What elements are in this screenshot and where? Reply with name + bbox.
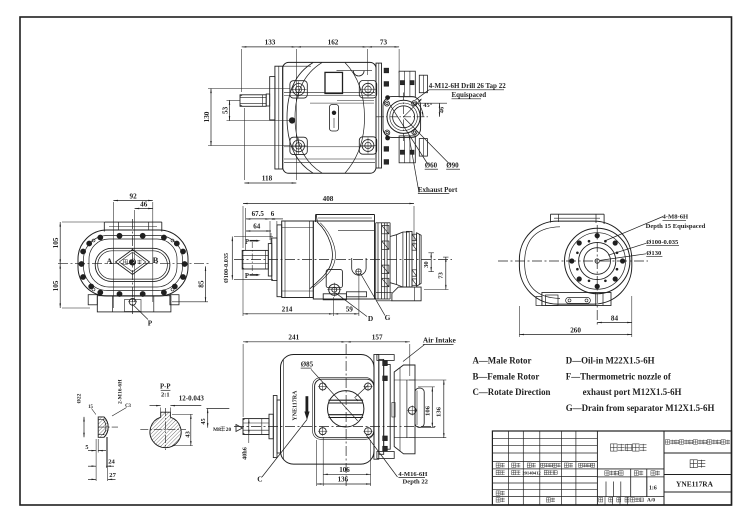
svg-text:73: 73 <box>437 272 444 279</box>
svg-text:64: 64 <box>253 222 261 230</box>
svg-text:85: 85 <box>198 280 206 288</box>
svg-text:84: 84 <box>611 315 619 323</box>
svg-text:46: 46 <box>140 201 148 209</box>
svg-text:6: 6 <box>271 210 275 218</box>
svg-text:exhaust port M12X1.5-6H: exhaust port M12X1.5-6H <box>583 387 682 397</box>
svg-text:Ø22: Ø22 <box>77 393 83 403</box>
svg-text:Air Intake: Air Intake <box>423 336 457 345</box>
svg-text:24: 24 <box>108 459 115 466</box>
svg-text:D—Oil-in M22X1.5-6H: D—Oil-in M22X1.5-6H <box>566 356 655 366</box>
svg-text:27: 27 <box>109 472 116 479</box>
svg-text:Ø60: Ø60 <box>425 162 438 170</box>
svg-text:157: 157 <box>372 333 383 341</box>
svg-text:4-M8-6H: 4-M8-6H <box>663 214 690 221</box>
svg-text:20: 20 <box>226 427 232 433</box>
svg-text:M8: M8 <box>213 427 221 433</box>
svg-text:P: P <box>245 239 249 246</box>
svg-text:Equispaced: Equispaced <box>452 91 487 99</box>
svg-text:YNE117RA: YNE117RA <box>676 479 714 488</box>
svg-text:4-M16-6H: 4-M16-6H <box>398 471 428 478</box>
svg-text:136: 136 <box>436 406 443 417</box>
svg-text:43: 43 <box>184 431 191 438</box>
svg-text:Ø90: Ø90 <box>446 162 459 170</box>
svg-text:G—Drain from separator M12X1.5: G—Drain from separator M12X1.5-6H <box>566 403 715 413</box>
svg-text:B: B <box>153 255 159 265</box>
svg-text:YNE117RA: YNE117RA <box>293 390 299 421</box>
svg-text:Ø100-0.035: Ø100-0.035 <box>646 239 679 246</box>
svg-text:1:6: 1:6 <box>649 485 657 491</box>
svg-text:260: 260 <box>570 327 581 335</box>
svg-text:F—Thermometric nozzle of: F—Thermometric nozzle of <box>566 371 672 381</box>
svg-text:118: 118 <box>262 174 273 182</box>
svg-text:162: 162 <box>328 38 339 46</box>
svg-text:D: D <box>368 314 373 323</box>
svg-text:40h6: 40h6 <box>241 447 248 460</box>
svg-text:5: 5 <box>85 444 88 451</box>
svg-text:Depth 22: Depth 22 <box>403 478 429 485</box>
svg-text:Ø130: Ø130 <box>646 250 662 257</box>
svg-text:53: 53 <box>222 106 230 114</box>
svg-text:P: P <box>245 273 249 280</box>
svg-text:105: 105 <box>52 237 60 248</box>
svg-text:20140412: 20140412 <box>522 470 541 475</box>
svg-text:15: 15 <box>88 405 93 410</box>
svg-text:46: 46 <box>439 106 446 113</box>
svg-text:A: A <box>106 256 113 266</box>
svg-text:106: 106 <box>339 466 350 474</box>
svg-text:241: 241 <box>288 333 299 341</box>
svg-text:92: 92 <box>130 193 138 201</box>
svg-text:130: 130 <box>203 111 211 122</box>
svg-text:133: 133 <box>265 38 276 46</box>
svg-text:106: 106 <box>424 405 431 416</box>
svg-text:2-M16-6H: 2-M16-6H <box>118 379 124 404</box>
svg-text:45: 45 <box>200 418 207 424</box>
svg-text:73: 73 <box>380 38 388 46</box>
svg-text:Ø85: Ø85 <box>301 361 314 369</box>
svg-text:A/0: A/0 <box>647 498 655 504</box>
svg-text:136: 136 <box>338 475 349 483</box>
svg-text:A—Male Rotor: A—Male Rotor <box>473 356 532 366</box>
svg-text:P: P <box>148 320 153 328</box>
svg-text:105: 105 <box>52 280 60 291</box>
svg-text:12-0.043: 12-0.043 <box>179 395 205 403</box>
svg-text:408: 408 <box>323 195 334 203</box>
svg-text:G: G <box>385 313 391 322</box>
svg-text:C: C <box>257 475 262 484</box>
svg-text:P-P: P-P <box>160 384 171 391</box>
svg-text:C3: C3 <box>125 404 131 409</box>
svg-text:214: 214 <box>282 305 293 313</box>
svg-text:67.5: 67.5 <box>252 210 265 218</box>
svg-text:B—Female Rotor: B—Female Rotor <box>473 371 540 381</box>
svg-text:59: 59 <box>346 305 354 313</box>
svg-text:Exhaust Port: Exhaust Port <box>418 186 458 194</box>
svg-text:C—Rotate Direction: C—Rotate Direction <box>473 387 551 397</box>
svg-text:Depth 15 Equispaced: Depth 15 Equispaced <box>646 223 706 230</box>
svg-text:4-M12-6H Drill 26 Tap 22: 4-M12-6H Drill 26 Tap 22 <box>429 82 507 90</box>
svg-text:2:1: 2:1 <box>161 391 170 398</box>
svg-text:Ø100-0.035: Ø100-0.035 <box>223 253 230 283</box>
svg-text:30: 30 <box>423 261 430 268</box>
